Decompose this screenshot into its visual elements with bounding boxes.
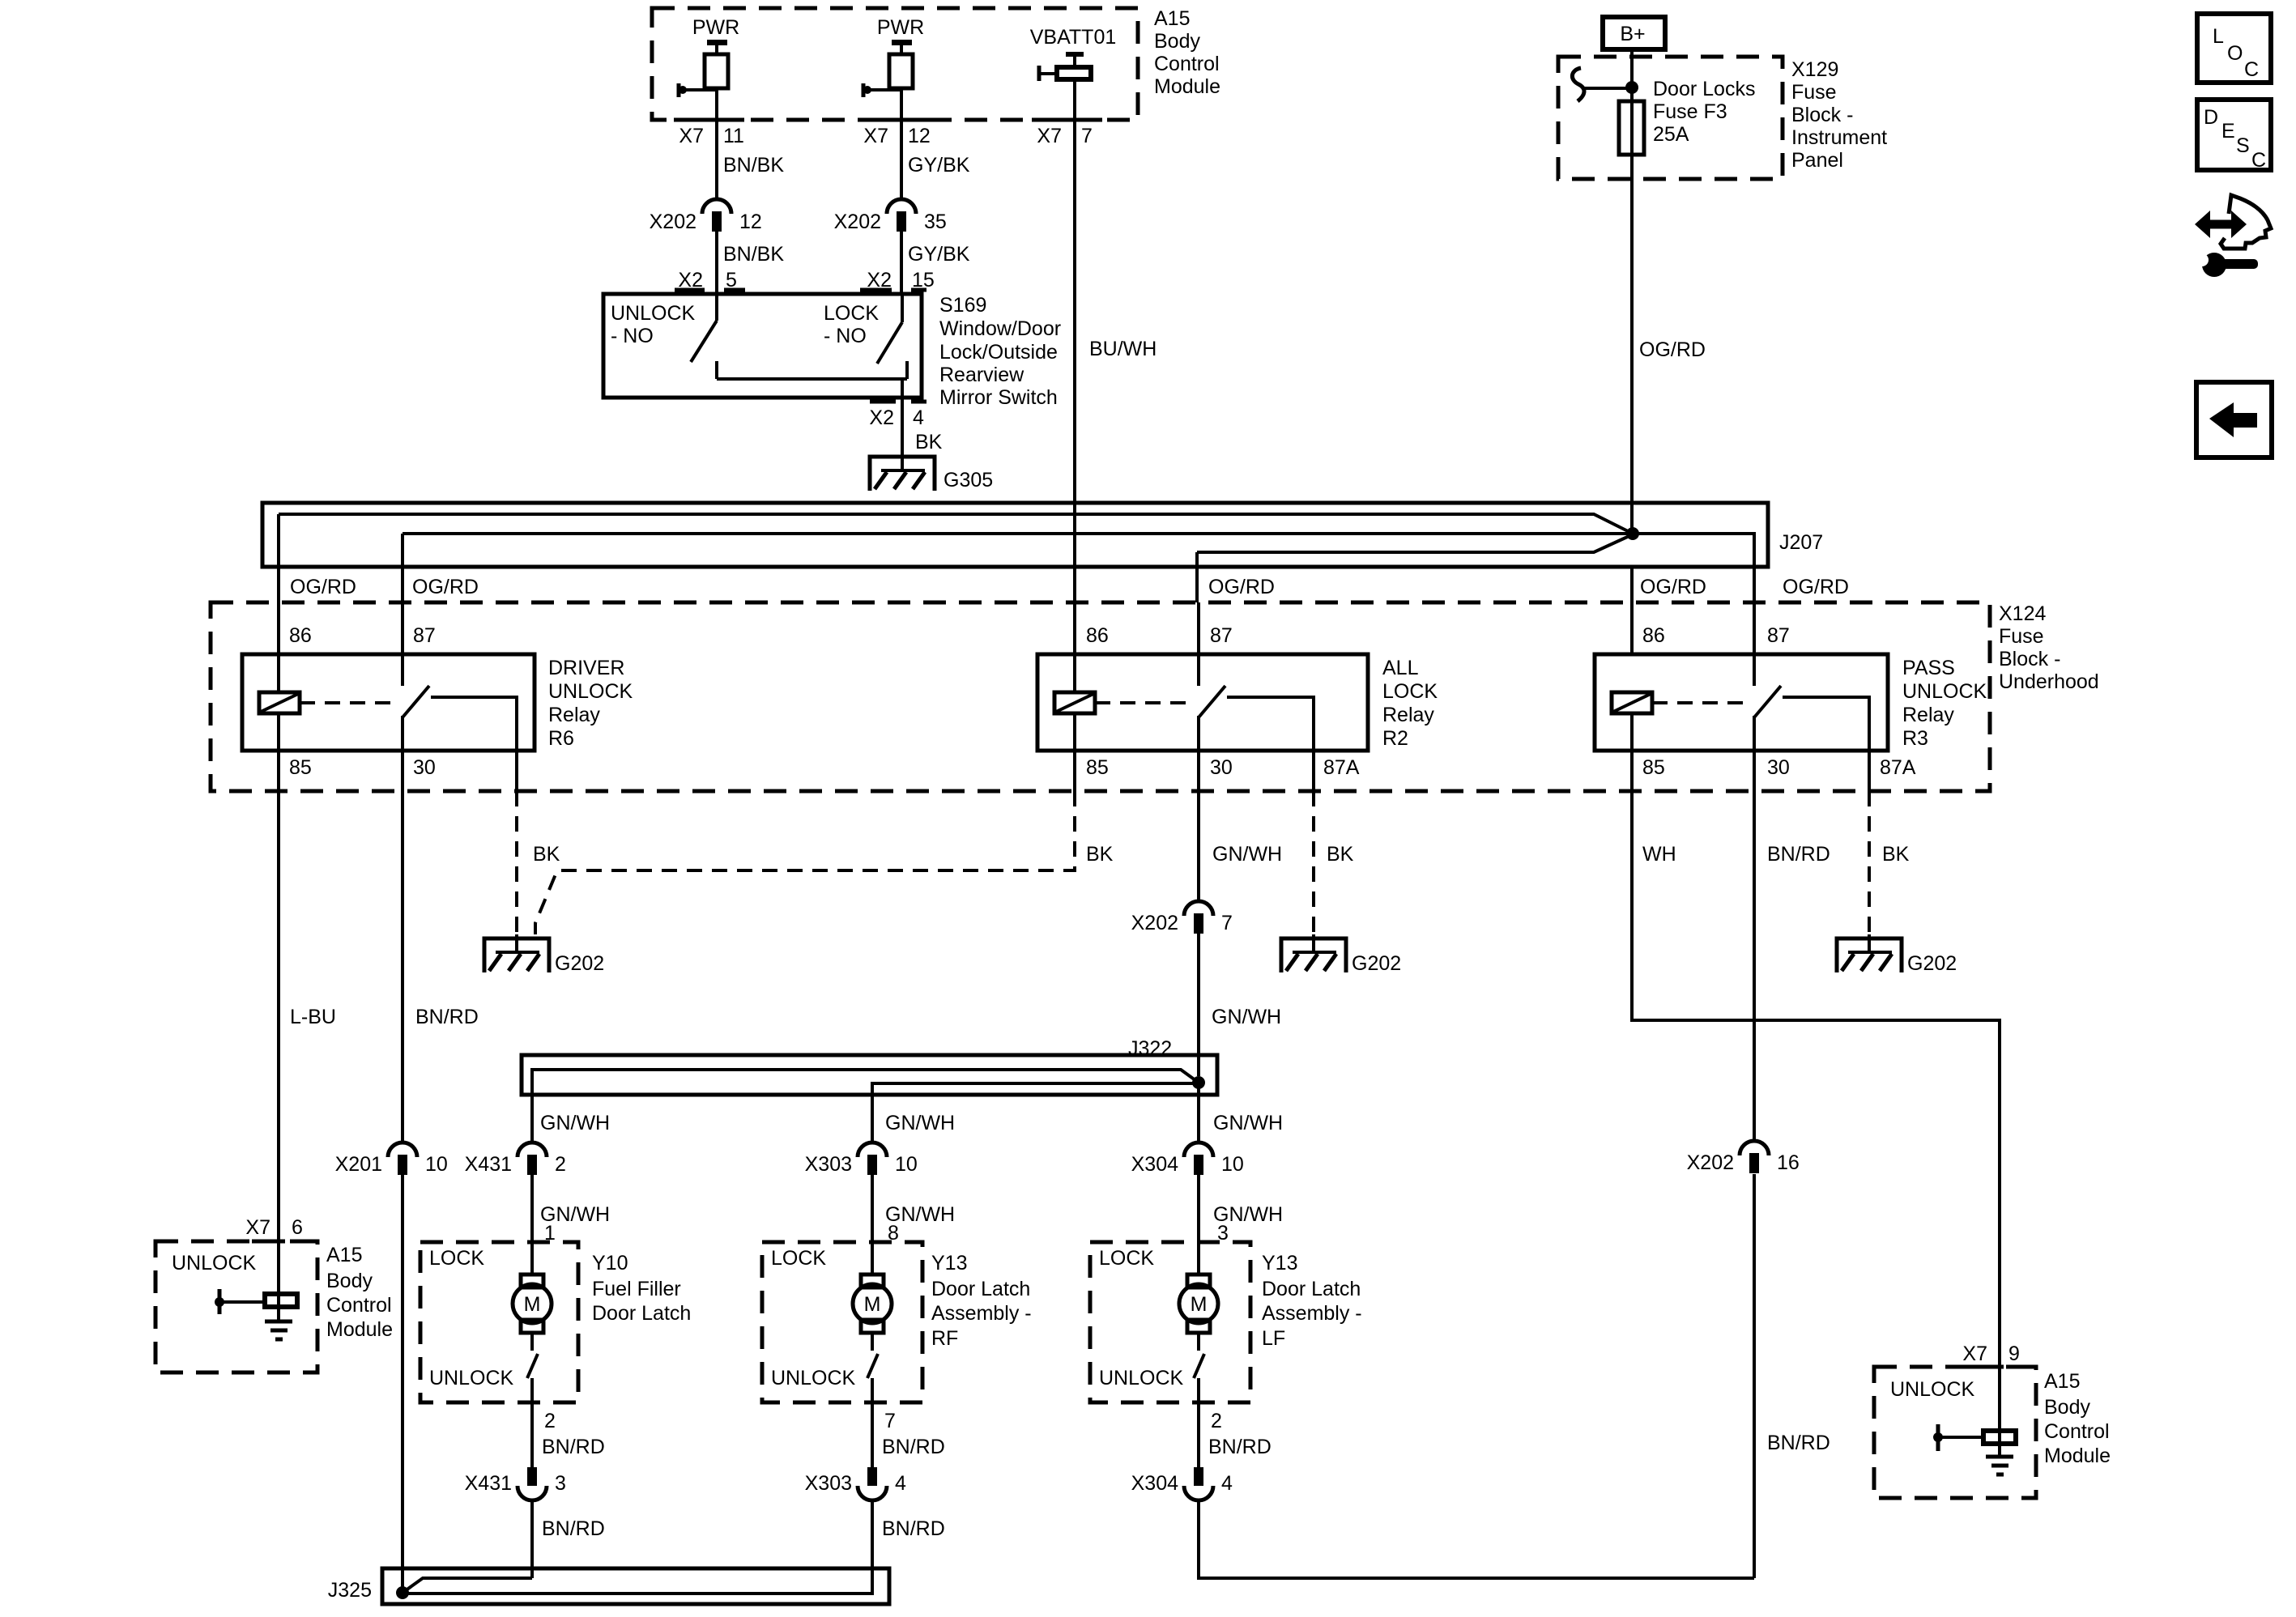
- wire R6-30 BN/RD down to X201: [401, 751, 404, 1142]
- power feed B+ box: [1603, 17, 1665, 49]
- svg-text:X124: X124: [1999, 602, 2046, 625]
- svg-text:7: 7: [884, 1410, 896, 1432]
- wire GN/WH J322 to X304-10: [1197, 1083, 1200, 1142]
- svg-text:X202: X202: [650, 211, 696, 233]
- wire GN/WH from X202-7 to J322: [1197, 934, 1200, 1076]
- svg-text:BN/RD: BN/RD: [882, 1436, 945, 1458]
- svg-text:J322: J322: [1128, 1037, 1172, 1060]
- svg-text:G202: G202: [1352, 952, 1401, 975]
- ground G202 (left): [484, 934, 549, 972]
- latch Y10 Fuel Filler Door Latch dashed box: [420, 1242, 578, 1402]
- svg-text:Relay: Relay: [1382, 704, 1434, 726]
- connector X431 pin 2: [518, 1143, 547, 1175]
- svg-text:Relay: Relay: [548, 704, 600, 726]
- svg-text:X431: X431: [465, 1472, 512, 1495]
- svg-text:VBATT01: VBATT01: [1030, 26, 1117, 49]
- svg-text:85: 85: [1086, 756, 1109, 779]
- pin tick X7-12: [858, 118, 929, 122]
- svg-text:Rearview: Rearview: [939, 364, 1024, 386]
- svg-text:Door Locks: Door Locks: [1653, 78, 1755, 100]
- svg-text:D: D: [2204, 106, 2218, 129]
- pin tick X7-7: [1032, 118, 1102, 122]
- svg-text:- NO: - NO: [611, 325, 654, 347]
- svg-text:87: 87: [413, 624, 436, 647]
- svg-text:OG/RD: OG/RD: [412, 576, 479, 598]
- svg-text:Fuse: Fuse: [1999, 625, 2044, 648]
- svg-text:PWR: PWR: [877, 16, 924, 39]
- svg-text:G202: G202: [1907, 952, 1957, 975]
- svg-text:UNLOCK: UNLOCK: [548, 680, 633, 703]
- switch R3 contact to 87A: [1783, 697, 1869, 751]
- svg-text:25A: 25A: [1653, 123, 1689, 146]
- wire into RF motor: [871, 1242, 874, 1274]
- wire GY/BK from X7-12 to X202: [900, 120, 903, 198]
- svg-text:Fuel Filler: Fuel Filler: [592, 1278, 681, 1300]
- coil-switch link R2 (dashed): [1095, 701, 1191, 704]
- connector X303 pin 4: [858, 1467, 887, 1500]
- switch contact UNLOCK terminal: [715, 294, 718, 321]
- module A15 Body Control Module (bottom right) dashed box: [1874, 1367, 2036, 1498]
- wire BN/RD LF pin 2 to X304-4: [1197, 1402, 1200, 1467]
- svg-text:4: 4: [895, 1472, 906, 1495]
- switch common bus: [717, 361, 907, 398]
- svg-text:Body: Body: [2044, 1396, 2090, 1419]
- switch blade (Y13 LF): [1194, 1333, 1204, 1402]
- coil R3: [1630, 713, 1634, 751]
- svg-text:X201: X201: [335, 1153, 382, 1176]
- wire R3-30 BN/RD down through X202-16: [1753, 751, 1756, 1140]
- coil-switch link R3 (dashed): [1652, 701, 1747, 704]
- coil R6: [277, 602, 280, 751]
- wire R6-85 L-BU down to BCM X7-6: [277, 751, 280, 1241]
- svg-text:87: 87: [1210, 624, 1233, 647]
- fuse block X124 dashed box: [211, 602, 1990, 791]
- svg-text:BK: BK: [533, 843, 560, 866]
- svg-text:BN/BK: BN/BK: [723, 154, 784, 177]
- svg-text:OG/RD: OG/RD: [1640, 576, 1706, 598]
- fusible link symbol (inside X129): [1572, 68, 1584, 101]
- svg-text:Control: Control: [2044, 1420, 2110, 1443]
- svg-text:Module: Module: [2044, 1445, 2111, 1467]
- node J325 splice junction: [396, 1586, 409, 1599]
- svg-text:Door Latch: Door Latch: [931, 1278, 1030, 1300]
- wire GN/WH X303-10 to Y13 RF pin 8: [871, 1175, 874, 1242]
- pin tick X7-6: [252, 1240, 313, 1244]
- svg-text:87A: 87A: [1880, 756, 1916, 779]
- svg-text:UNLOCK: UNLOCK: [429, 1367, 514, 1389]
- svg-text:16: 16: [1777, 1151, 1800, 1174]
- fuse PWR 2 (inside A15): [863, 16, 924, 120]
- wire R6-30 down: [401, 716, 404, 751]
- svg-text:O: O: [2227, 42, 2243, 65]
- svg-text:BU/WH: BU/WH: [1089, 338, 1157, 360]
- svg-text:30: 30: [1767, 756, 1790, 779]
- svg-text:GN/WH: GN/WH: [885, 1112, 955, 1134]
- splice pack J322 outer band: [522, 1055, 1217, 1095]
- svg-text:Control: Control: [1154, 53, 1220, 75]
- svg-text:BN/BK: BN/BK: [723, 243, 784, 266]
- svg-text:Block -: Block -: [1791, 104, 1853, 126]
- svg-text:X7: X7: [679, 125, 704, 147]
- svg-text:A15: A15: [2044, 1370, 2080, 1393]
- svg-text:BN/RD: BN/RD: [1208, 1436, 1272, 1458]
- svg-text:BK: BK: [915, 431, 943, 453]
- svg-text:X202: X202: [1131, 912, 1178, 934]
- coil-switch link R6 (dashed): [300, 701, 395, 704]
- ground (internal, X7-9): [1998, 1444, 2001, 1456]
- svg-text:UNLOCK: UNLOCK: [771, 1367, 856, 1389]
- svg-text:G202: G202: [555, 952, 604, 975]
- svg-text:Body: Body: [326, 1270, 373, 1292]
- svg-text:2: 2: [1211, 1410, 1222, 1432]
- svg-text:X7: X7: [1962, 1343, 1987, 1365]
- svg-text:PASS: PASS: [1902, 657, 1955, 679]
- wire J322 branch to X431-2: [532, 1070, 1199, 1142]
- svg-text:Door Latch: Door Latch: [592, 1302, 691, 1325]
- ground G202 (right): [1837, 934, 1902, 972]
- splice pack J325 outer band: [382, 1568, 889, 1604]
- svg-text:X2: X2: [867, 269, 892, 291]
- switch R2 blade: [1199, 686, 1225, 717]
- wire R3-30 down: [1753, 716, 1756, 751]
- svg-text:86: 86: [289, 624, 312, 647]
- svg-text:Instrument: Instrument: [1791, 126, 1887, 149]
- svg-text:LF: LF: [1262, 1327, 1285, 1350]
- switch R2 contact to 87A: [1227, 697, 1314, 751]
- svg-text:X129: X129: [1791, 58, 1838, 81]
- svg-text:30: 30: [1210, 756, 1233, 779]
- icon vehicle outline with arrow: [2221, 195, 2271, 249]
- latch Y13 Door Latch Assembly - LF dashed box: [1090, 1242, 1250, 1402]
- wire BN/RD X431-3 to J325: [530, 1501, 534, 1578]
- pin UNLOCK driver symbol (X7-6): [277, 1241, 280, 1307]
- svg-text:Relay: Relay: [1902, 704, 1954, 726]
- svg-text:R6: R6: [548, 727, 574, 750]
- svg-text:5: 5: [726, 269, 737, 291]
- pin tick X2-4: [870, 400, 926, 404]
- svg-text:E: E: [2221, 120, 2235, 143]
- svg-text:OG/RD: OG/RD: [1639, 338, 1706, 361]
- pin tick X7-11: [674, 118, 744, 122]
- svg-text:86: 86: [1642, 624, 1665, 647]
- ground (internal, X7-6): [277, 1307, 280, 1320]
- svg-text:X304: X304: [1131, 1472, 1178, 1495]
- icon LOC box: [2197, 14, 2271, 83]
- wire into Y10 motor: [530, 1242, 534, 1274]
- svg-text:J325: J325: [328, 1579, 372, 1602]
- svg-text:LOCK: LOCK: [1382, 680, 1438, 703]
- wire link to node: [1582, 87, 1632, 90]
- svg-text:Window/Door: Window/Door: [939, 317, 1061, 340]
- svg-text:GN/WH: GN/WH: [1212, 1006, 1281, 1028]
- pin tick X7-9: [1968, 1365, 2031, 1369]
- node junction at fuse F3 top: [1625, 81, 1638, 94]
- svg-text:GN/WH: GN/WH: [540, 1112, 610, 1134]
- svg-text:2: 2: [544, 1410, 556, 1432]
- svg-text:BN/RD: BN/RD: [1767, 843, 1830, 866]
- svg-text:9: 9: [2008, 1343, 2020, 1365]
- connector X202 pin 7: [1184, 901, 1213, 934]
- svg-text:UNLOCK: UNLOCK: [1902, 680, 1987, 703]
- motor M (Y13 RF): [853, 1274, 892, 1333]
- svg-text:GY/BK: GY/BK: [908, 243, 970, 266]
- svg-text:OG/RD: OG/RD: [1783, 576, 1849, 598]
- wire R3-85 WH to BCM X7-9: [1632, 751, 2000, 1367]
- wire J325 branch to X431-3 leg: [403, 1578, 532, 1593]
- relay R3 PASS UNLOCK box: [1595, 654, 1888, 751]
- svg-text:X202: X202: [1687, 1151, 1734, 1174]
- svg-text:OG/RD: OG/RD: [290, 576, 356, 598]
- svg-text:10: 10: [1221, 1153, 1244, 1176]
- node J207 splice junction: [1626, 527, 1639, 540]
- svg-text:UNLOCK: UNLOCK: [1099, 1367, 1184, 1389]
- svg-text:Lock/Outside: Lock/Outside: [939, 341, 1058, 364]
- wire into LF motor: [1197, 1242, 1200, 1274]
- svg-text:J207: J207: [1779, 531, 1823, 554]
- svg-text:30: 30: [413, 756, 436, 779]
- svg-text:Y13: Y13: [1262, 1252, 1297, 1274]
- wire J207 branch to R2-87: [1197, 534, 1633, 602]
- wire BN/RD X303-4 to J325: [871, 1501, 874, 1594]
- wire BU/WH from VBATT01 (X7-7) down to relay R2 pin 86: [1073, 120, 1076, 653]
- svg-text:X7: X7: [863, 125, 888, 147]
- svg-text:RF: RF: [931, 1327, 958, 1350]
- connector X431 pin 3: [518, 1467, 547, 1500]
- module A15 Body Control Module (bottom left) dashed box: [155, 1241, 317, 1372]
- svg-text:C: C: [2244, 58, 2259, 81]
- svg-text:X202: X202: [834, 211, 881, 233]
- latch Y13 Door Latch Assembly - RF dashed box: [762, 1242, 922, 1402]
- pin VBATT01 (A15 internal output): [1030, 26, 1117, 120]
- svg-text:12: 12: [739, 211, 762, 233]
- icon back arrow box: [2196, 382, 2272, 457]
- pin tick X2-15: [860, 288, 926, 292]
- fuse PWR 1 (inside A15): [679, 16, 739, 120]
- wire BN/BK from X7-11 to X202: [715, 120, 718, 198]
- svg-text:Underhood: Underhood: [1999, 670, 2099, 693]
- wire R6 contact BK to ground G202: [515, 751, 518, 791]
- svg-text:X303: X303: [805, 1472, 852, 1495]
- switch blade (Y10): [527, 1333, 538, 1402]
- svg-text:LOCK: LOCK: [429, 1247, 484, 1270]
- connector X304 pin 10: [1184, 1143, 1213, 1175]
- svg-text:7: 7: [1221, 912, 1233, 934]
- wire GY/BK from X202-35 to S169: [900, 232, 903, 294]
- svg-text:Control: Control: [326, 1294, 392, 1317]
- svg-text:BN/RD: BN/RD: [542, 1436, 605, 1458]
- svg-text:GN/WH: GN/WH: [1212, 843, 1282, 866]
- svg-text:BN/RD: BN/RD: [1767, 1432, 1830, 1454]
- svg-text:BN/RD: BN/RD: [542, 1517, 605, 1540]
- connector X303 pin 10: [858, 1143, 887, 1175]
- switch R6: 87 terminal: [401, 602, 404, 686]
- motor M (Y10): [513, 1274, 552, 1333]
- splice pack J207 outer band: [262, 503, 1768, 567]
- wire BN/RD feed into J325: [401, 1175, 404, 1593]
- svg-text:Fuse: Fuse: [1791, 81, 1837, 104]
- svg-text:LOCK: LOCK: [1099, 1247, 1154, 1270]
- wire R2-30 GN/WH to X202-7: [1197, 751, 1200, 900]
- svg-text:4: 4: [1221, 1472, 1233, 1495]
- wire R2-85 BK to ground G202 (dashed route): [1073, 751, 1076, 791]
- svg-text:X2: X2: [678, 269, 703, 291]
- svg-text:Module: Module: [326, 1318, 393, 1341]
- svg-text:S: S: [2236, 134, 2250, 157]
- svg-text:15: 15: [912, 269, 935, 291]
- svg-text:BN/RD: BN/RD: [415, 1006, 479, 1028]
- svg-text:2: 2: [555, 1153, 566, 1176]
- svg-text:L: L: [2213, 25, 2224, 48]
- wire R3-87A BK to ground G202: [1868, 751, 1871, 791]
- wire J207 branch to R3-87: [1633, 534, 1754, 602]
- svg-text:L-BU: L-BU: [290, 1006, 336, 1028]
- svg-text:85: 85: [1642, 756, 1665, 779]
- switch blade UNLOCK: [691, 321, 717, 362]
- icon wrench: [2202, 253, 2226, 277]
- svg-text:B+: B+: [1620, 23, 1645, 45]
- svg-text:10: 10: [425, 1153, 448, 1176]
- svg-text:WH: WH: [1642, 843, 1676, 866]
- svg-text:85: 85: [289, 756, 312, 779]
- svg-text:- NO: - NO: [824, 325, 867, 347]
- pin UNLOCK driver symbol (X7-9): [1998, 1367, 2001, 1444]
- switch R3: 87 terminal: [1753, 602, 1756, 686]
- svg-text:BK: BK: [1086, 843, 1114, 866]
- svg-text:GN/WH: GN/WH: [1213, 1112, 1283, 1134]
- switch R6 contact to unnamed 87A wire: [431, 697, 517, 751]
- connector X201 pin 10: [388, 1143, 417, 1175]
- svg-text:R3: R3: [1902, 727, 1928, 750]
- svg-text:X431: X431: [465, 1153, 512, 1176]
- svg-text:OG/RD: OG/RD: [1208, 576, 1275, 598]
- wire J207 branch to R6-86: [279, 514, 1633, 602]
- svg-text:87A: 87A: [1323, 756, 1360, 779]
- svg-text:X304: X304: [1131, 1153, 1178, 1176]
- svg-text:GY/BK: GY/BK: [908, 154, 970, 177]
- wire BK from S169 X2-4 to G305: [901, 398, 904, 456]
- svg-text:35: 35: [924, 211, 947, 233]
- wire GN/WH X431-2 to Y10 pin 1: [530, 1175, 534, 1242]
- ground G305: [870, 453, 935, 491]
- switch R6 blade: [403, 686, 429, 717]
- svg-text:6: 6: [292, 1216, 303, 1239]
- wire R2-87A BK to ground G202: [1312, 751, 1315, 791]
- svg-text:LOCK: LOCK: [824, 302, 879, 325]
- wire B+ to fuse F3: [1630, 49, 1634, 101]
- svg-text:UNLOCK: UNLOCK: [1890, 1378, 1975, 1401]
- wire J207 branch to R6-87: [403, 534, 1632, 602]
- svg-text:Body: Body: [1154, 30, 1200, 53]
- svg-text:BN/RD: BN/RD: [882, 1517, 945, 1540]
- svg-text:7: 7: [1081, 125, 1093, 147]
- connector X202 pin 12: [702, 199, 731, 232]
- switch R2: 87 terminal: [1197, 602, 1200, 686]
- module A15 Body Control Module (top) dashed box: [652, 8, 1138, 120]
- svg-text:Module: Module: [1154, 75, 1220, 98]
- svg-text:Assembly -: Assembly -: [931, 1302, 1032, 1325]
- svg-text:12: 12: [908, 125, 931, 147]
- svg-text:UNLOCK: UNLOCK: [172, 1252, 257, 1274]
- svg-text:3: 3: [555, 1472, 566, 1495]
- svg-text:Fuse F3: Fuse F3: [1653, 100, 1727, 123]
- switch contact LOCK terminal: [901, 294, 904, 322]
- wire OG/RD from fuse F3 down to J207 splice: [1630, 87, 1634, 534]
- wire BN/RD X304-4 to R3-30 via X202-16: [1199, 1174, 1754, 1578]
- svg-text:10: 10: [895, 1153, 918, 1176]
- svg-text:BK: BK: [1882, 843, 1910, 866]
- svg-text:A15: A15: [1154, 7, 1190, 30]
- svg-text:Y13: Y13: [931, 1252, 967, 1274]
- svg-text:PWR: PWR: [692, 16, 739, 39]
- svg-text:X7: X7: [1037, 125, 1062, 147]
- svg-text:C: C: [2251, 149, 2266, 172]
- motor M (Y13 LF): [1179, 1274, 1218, 1333]
- svg-text:86: 86: [1086, 624, 1109, 647]
- svg-text:Assembly -: Assembly -: [1262, 1302, 1362, 1325]
- svg-text:11: 11: [723, 125, 744, 147]
- svg-text:X7: X7: [245, 1216, 270, 1239]
- svg-text:LOCK: LOCK: [771, 1247, 826, 1270]
- svg-text:Y10: Y10: [592, 1252, 628, 1274]
- coil R2: [1073, 653, 1076, 751]
- wire BN/RD RF pin 7 to X303-4: [871, 1402, 874, 1467]
- svg-text:A15: A15: [326, 1244, 362, 1266]
- connector X202 pin 35: [887, 199, 916, 232]
- wire J322 branch to X303-10: [872, 1083, 1197, 1142]
- ground G202 (center): [1281, 934, 1346, 972]
- fuse block X129 dashed box: [1558, 57, 1783, 179]
- svg-text:4: 4: [913, 406, 924, 429]
- svg-text:R2: R2: [1382, 727, 1408, 750]
- svg-text:G305: G305: [944, 469, 993, 491]
- svg-text:ALL: ALL: [1382, 657, 1419, 679]
- switch S169 Window/Door Lock/Outside Rearview Mirror Switch box: [603, 294, 922, 398]
- wire OG/RD feed continues to R3-86: [1630, 567, 1634, 653]
- node J322 splice junction: [1192, 1076, 1205, 1089]
- wire J325 branch to X303-4 leg: [403, 1568, 872, 1594]
- wire BN/RD Y10 pin 2 to X431-3: [530, 1402, 534, 1467]
- svg-text:BK: BK: [1327, 843, 1354, 866]
- icon DESC box: [2197, 100, 2271, 170]
- svg-text:X303: X303: [805, 1153, 852, 1176]
- svg-text:UNLOCK: UNLOCK: [611, 302, 696, 325]
- svg-text:Mirror Switch: Mirror Switch: [939, 386, 1058, 409]
- switch blade LOCK: [877, 322, 902, 364]
- svg-text:87: 87: [1767, 624, 1790, 647]
- wire BN/BK from X202-12 to S169: [715, 232, 718, 294]
- switch R3 blade: [1754, 686, 1781, 717]
- switch blade (Y13 RF): [867, 1333, 878, 1402]
- svg-text:Block -: Block -: [1999, 648, 2060, 670]
- pin tick X2-5: [675, 288, 745, 292]
- connector X202 pin 16: [1740, 1141, 1769, 1173]
- svg-text:X2: X2: [869, 406, 894, 429]
- relay R6 DRIVER UNLOCK box: [242, 654, 535, 751]
- svg-text:S169: S169: [939, 294, 986, 317]
- svg-text:Panel: Panel: [1791, 149, 1843, 172]
- svg-text:Door Latch: Door Latch: [1262, 1278, 1361, 1300]
- connector X304 pin 4: [1184, 1467, 1213, 1500]
- wire GN/WH X304-10 to Y13 LF pin 3: [1197, 1175, 1200, 1242]
- wire R2-30 down: [1197, 716, 1200, 751]
- svg-text:DRIVER: DRIVER: [548, 657, 624, 679]
- fuse F3 25A Door Locks: [1619, 101, 1644, 155]
- relay R2 ALL LOCK box: [1037, 654, 1368, 751]
